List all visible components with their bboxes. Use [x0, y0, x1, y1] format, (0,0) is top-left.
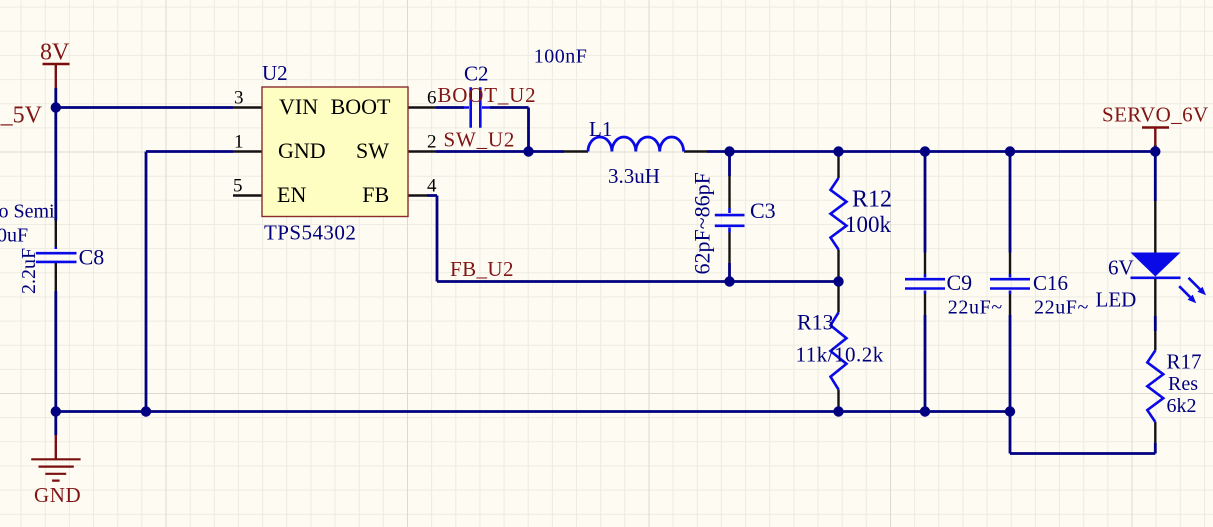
svg-text:L1: L1	[589, 117, 612, 141]
svg-text:R17: R17	[1167, 350, 1202, 374]
svg-text:L_5V: L_5V	[0, 103, 43, 129]
svg-text:6: 6	[427, 88, 437, 109]
svg-text:8V: 8V	[40, 40, 70, 66]
svg-text:SERVO_6V: SERVO_6V	[1102, 103, 1209, 127]
svg-text:100k: 100k	[845, 212, 892, 237]
svg-text:GND: GND	[34, 483, 81, 507]
svg-text:EN: EN	[277, 182, 306, 207]
svg-text:Res: Res	[1168, 373, 1198, 395]
svg-text:R12: R12	[852, 187, 892, 213]
svg-text:SW: SW	[356, 138, 389, 163]
svg-text:62pF~86pF: 62pF~86pF	[690, 172, 715, 274]
svg-text:VIN: VIN	[279, 94, 318, 119]
svg-text:FB_U2: FB_U2	[450, 257, 514, 281]
svg-text:6V: 6V	[1108, 256, 1134, 280]
svg-text:3.3uH: 3.3uH	[608, 164, 660, 188]
svg-text:U2: U2	[262, 61, 288, 85]
svg-text:R13: R13	[797, 310, 834, 335]
svg-text:3: 3	[234, 88, 244, 109]
svg-text:4: 4	[427, 176, 437, 197]
svg-text:6k2: 6k2	[1167, 395, 1197, 417]
svg-text:LED: LED	[1096, 288, 1137, 312]
svg-text:o Semi: o Semi	[0, 201, 55, 223]
svg-text:C3: C3	[750, 198, 776, 223]
svg-text:C2: C2	[464, 62, 489, 86]
svg-text:2.2uF: 2.2uF	[18, 248, 40, 294]
svg-text:22uF~: 22uF~	[1034, 297, 1089, 319]
svg-text:BOOT: BOOT	[331, 94, 391, 119]
svg-text:C9: C9	[947, 270, 973, 295]
svg-text:C16: C16	[1033, 271, 1068, 295]
svg-text:100nF: 100nF	[534, 46, 588, 68]
svg-text:1: 1	[234, 132, 244, 153]
svg-text:22uF~: 22uF~	[948, 297, 1003, 319]
svg-text:TPS54302: TPS54302	[264, 221, 356, 245]
svg-text:5: 5	[233, 176, 243, 197]
svg-text:FB: FB	[362, 182, 389, 207]
svg-text:C8: C8	[79, 245, 105, 270]
svg-text:BOOT_U2: BOOT_U2	[438, 83, 537, 107]
svg-text:2: 2	[427, 132, 437, 153]
svg-text:GND: GND	[278, 138, 326, 163]
svg-text:11k/10.2k: 11k/10.2k	[796, 343, 884, 367]
svg-text:SW_U2: SW_U2	[444, 127, 516, 151]
svg-text:10uF: 10uF	[0, 225, 28, 247]
